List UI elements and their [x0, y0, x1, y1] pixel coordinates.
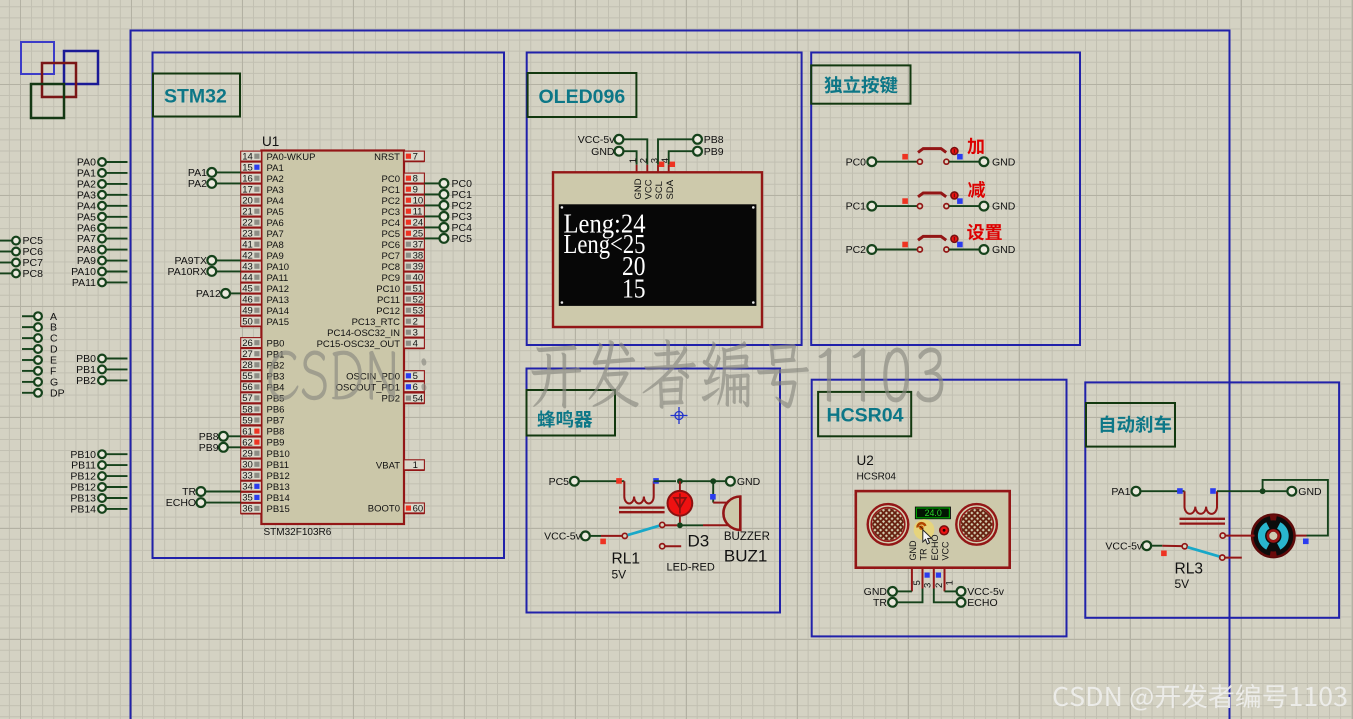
U1 pin 39 (PC8) [382, 261, 425, 273]
decorative rect blue [21, 42, 54, 74]
svg-text:PA6: PA6 [267, 218, 284, 229]
OLED pin 4 stub [660, 158, 675, 173]
decorative rect dark green [31, 84, 64, 118]
wire button to GND [949, 249, 980, 251]
U1 pin 49 (PA14) [241, 305, 289, 317]
terminal PB11 (stack) [71, 460, 127, 472]
terminal PC5 (chip right) [424, 233, 472, 245]
svg-text:38: 38 [413, 251, 424, 262]
svg-text:VCC-5v: VCC-5v [544, 531, 582, 543]
svg-text:PC8: PC8 [23, 268, 44, 280]
svg-text:PB2: PB2 [76, 375, 96, 387]
U1 pin 36 (PB15) [241, 503, 290, 515]
U1 pin 5 (OSCIN_PD0) [346, 371, 424, 383]
svg-text:PA8: PA8 [267, 240, 284, 251]
motor right lead [1293, 535, 1306, 537]
wire PB8 to OLED pin3 [658, 139, 693, 165]
svg-text:3: 3 [923, 583, 934, 588]
svg-text:4: 4 [413, 339, 418, 350]
svg-text:9: 9 [413, 185, 418, 196]
svg-text:STM32: STM32 [164, 86, 227, 108]
svg-text:27: 27 [242, 349, 253, 360]
svg-text:23: 23 [242, 229, 253, 240]
svg-text:PC12: PC12 [376, 306, 400, 317]
U1 pin 6 (OSCOUT_PD1) [336, 382, 425, 394]
terminal PB12 (stack) [70, 471, 127, 483]
U1 pin 41 (PA8) [241, 239, 284, 251]
svg-text:PC10: PC10 [376, 284, 400, 295]
svg-text:PB14: PB14 [70, 504, 96, 516]
motor left lead [1220, 533, 1254, 538]
svg-text:VCC-5v: VCC-5v [578, 134, 616, 146]
label box 独立按键 [811, 65, 910, 103]
svg-text:PA11: PA11 [267, 273, 289, 284]
svg-text:D3: D3 [688, 532, 710, 551]
terminal G (segment stack) [22, 377, 58, 389]
LED D3 [668, 481, 693, 522]
wire coil to LED node [654, 480, 676, 482]
mouse cursor [923, 530, 932, 544]
svg-text:PC15-OSC32_OUT: PC15-OSC32_OUT [317, 339, 401, 350]
U2 distance display 24.0 [915, 507, 951, 520]
svg-text:PA4: PA4 [267, 196, 284, 207]
svg-text:PA5: PA5 [267, 207, 284, 218]
OLED screen text [564, 209, 646, 304]
svg-text:35: 35 [242, 493, 253, 504]
U1 pin 16 (PA2) [241, 173, 284, 185]
U1 pin 38 (PC7) [382, 250, 425, 262]
svg-text:33: 33 [242, 471, 253, 482]
svg-text:PA13: PA13 [267, 295, 290, 306]
terminal PB9 (OLED) [693, 146, 724, 158]
U2 pin names [908, 534, 951, 560]
U1 pin 28 (PB2) [241, 360, 285, 372]
U1 pin 55 (PB3) [241, 371, 285, 383]
svg-text:10: 10 [413, 196, 424, 207]
terminal PC4 (chip right) [424, 222, 472, 234]
U1 pin 52 (PC11) [377, 294, 424, 306]
U1 pin 45 (PA12) [241, 283, 289, 295]
terminal PB12 (stack) [70, 482, 127, 494]
svg-text:2: 2 [413, 317, 418, 328]
svg-text:LED-RED: LED-RED [667, 562, 715, 574]
svg-text:PB10: PB10 [267, 449, 290, 460]
svg-text:14: 14 [242, 152, 253, 163]
svg-text:PB8: PB8 [704, 134, 724, 146]
svg-text:52: 52 [413, 295, 424, 306]
STM32 section frame [153, 53, 505, 559]
wire PC5 to relay coil [579, 478, 625, 484]
svg-text:PA2: PA2 [188, 178, 207, 190]
terminal PC5 (far left) [0, 235, 43, 247]
svg-text:PB8: PB8 [267, 427, 285, 438]
svg-text:53: 53 [413, 306, 424, 317]
svg-text:40: 40 [413, 273, 424, 284]
svg-text:PC0: PC0 [382, 174, 400, 185]
svg-text:1: 1 [413, 460, 418, 471]
U1 pin 10 (PC2) [382, 195, 425, 207]
svg-text:TR: TR [919, 548, 929, 560]
svg-text:VCC: VCC [644, 179, 655, 199]
svg-text:4: 4 [660, 158, 671, 163]
decorative rect dark red [42, 63, 76, 97]
terminal PA11 (stack) [72, 277, 128, 289]
U2 labels [857, 453, 897, 483]
svg-text:PA7: PA7 [267, 229, 284, 240]
terminal PC1 [846, 201, 877, 213]
OLED pin 3 stub [649, 158, 664, 173]
OLED section frame [527, 53, 802, 346]
U1 pin 57 (PB5) [241, 393, 285, 405]
terminal PA8 (stack) [77, 244, 128, 256]
U1 pin 58 (PB6) [241, 404, 285, 416]
svg-text:PA3: PA3 [267, 185, 284, 196]
U1 pin 25 (PC5) [382, 228, 425, 240]
terminal GND (PC2 row) [980, 244, 1016, 256]
wire PA1 to relay coil [1140, 488, 1184, 494]
svg-text:NRST: NRST [374, 152, 400, 163]
svg-text:PA10: PA10 [267, 262, 290, 273]
red label 设置 [967, 224, 1002, 241]
svg-text:GND: GND [992, 244, 1016, 256]
svg-text:PB7: PB7 [267, 416, 285, 427]
U1 pin 27 (PB1) [241, 349, 285, 361]
U1 pin 3 (PC14-OSC32_IN) [327, 327, 424, 339]
terminal PA9TX [175, 255, 241, 267]
svg-text:PC2: PC2 [382, 196, 400, 207]
svg-text:28: 28 [242, 360, 253, 371]
terminal F (segment stack) [22, 366, 56, 378]
terminal B (segment stack) [22, 322, 57, 334]
U1 pin 2 (PC13_RTC) [352, 316, 425, 328]
label box 蜂鸣器 [527, 390, 616, 436]
terminal PB0 (stack) [76, 353, 127, 365]
corner watermark [1054, 684, 1347, 711]
brake section frame [1085, 382, 1339, 617]
svg-text:SCL: SCL [654, 181, 665, 199]
svg-text:PB6: PB6 [267, 405, 285, 416]
svg-text:PB9: PB9 [267, 438, 285, 449]
U1 pin 23 (PA7) [241, 228, 284, 240]
relay RL1 switch [544, 522, 681, 581]
terminal TR (HCSR04) [873, 589, 923, 609]
U1 pin 34 (PB13) [241, 481, 290, 493]
terminal ECHO [166, 497, 241, 509]
svg-text:55: 55 [242, 371, 253, 382]
wire LED node to GND node [682, 480, 727, 482]
wire LED bottom to buzzer [682, 524, 703, 526]
svg-text:GND: GND [633, 178, 644, 199]
U1 pin 59 (PB7) [241, 415, 285, 427]
U1 pin 33 (PB12) [241, 470, 290, 482]
OLED pin 2 stub [639, 158, 650, 173]
svg-text:39: 39 [413, 262, 424, 273]
terminal PC2 [846, 244, 877, 256]
terminal PA1 [188, 167, 241, 179]
U1 pin 40 (PC9) [382, 272, 425, 284]
terminal PB8 [199, 431, 241, 443]
svg-text:11: 11 [413, 207, 423, 218]
svg-text:24: 24 [413, 218, 424, 229]
svg-text:54: 54 [413, 393, 424, 404]
OLED display module OLED1 [553, 172, 762, 327]
terminal PB13 (stack) [70, 493, 127, 505]
svg-text:PA15: PA15 [267, 317, 290, 328]
svg-text:34: 34 [242, 482, 253, 493]
U1 pin 20 (PA4) [241, 195, 284, 207]
OLED pin 1 stub [628, 158, 639, 173]
terminal PC2 (chip right) [424, 200, 472, 212]
U1 pin 43 (PA10) [241, 261, 289, 273]
terminal C (segment stack) [22, 333, 58, 345]
svg-text:3: 3 [413, 328, 418, 339]
terminal PA4 (stack) [77, 200, 128, 212]
svg-text:50: 50 [242, 317, 253, 328]
svg-text:1: 1 [945, 580, 956, 585]
wire button to GND [949, 205, 980, 207]
svg-text:BUZZER: BUZZER [724, 531, 770, 543]
wire PB9 to OLED pin4 [669, 151, 694, 165]
svg-text:PC13_RTC: PC13_RTC [352, 317, 401, 328]
svg-text:62: 62 [242, 437, 253, 448]
relay RL3 switch [1105, 540, 1241, 591]
buttons section frame [811, 53, 1080, 346]
U1 pin 30 (PB11) [241, 459, 289, 471]
svg-text:PB9: PB9 [199, 442, 219, 454]
U1 pin 26 (PB0) [241, 338, 285, 350]
terminal PA9 (stack) [77, 255, 128, 267]
U1 pin 35 (PB14) [241, 492, 290, 504]
motor [1252, 515, 1294, 557]
U1 pin 60 (BOOT0) [368, 503, 425, 515]
HCSR04 section frame [812, 380, 1067, 637]
center watermark [269, 339, 944, 409]
svg-text:TR: TR [873, 597, 887, 609]
svg-text:PA0-WKUP: PA0-WKUP [267, 152, 316, 163]
U2 potentiometer [914, 519, 935, 540]
button PC0 [902, 148, 962, 165]
svg-text:RL1: RL1 [612, 551, 640, 568]
svg-text:3: 3 [649, 158, 660, 163]
svg-text:HCSR04: HCSR04 [827, 405, 904, 427]
svg-text:PC1: PC1 [846, 201, 867, 213]
svg-text:30: 30 [242, 460, 253, 471]
red label 减 [968, 181, 985, 198]
svg-text:1: 1 [628, 158, 639, 163]
svg-text:56: 56 [242, 382, 253, 393]
terminal PA1 (stack) [77, 168, 128, 180]
terminal GND (HCSR04) [864, 586, 912, 598]
svg-text:PC7: PC7 [382, 251, 400, 262]
svg-text:PB14: PB14 [267, 493, 290, 504]
terminal PA12 [196, 288, 241, 300]
terminal GND (PC1 row) [980, 201, 1016, 213]
U1 pin 62 (PB9) [241, 437, 285, 449]
svg-text:PC3: PC3 [382, 207, 400, 218]
svg-text:5: 5 [912, 580, 923, 585]
svg-text:2: 2 [639, 158, 650, 163]
svg-text:8: 8 [413, 174, 418, 185]
svg-text:15: 15 [242, 163, 253, 174]
svg-text:6: 6 [413, 382, 418, 393]
terminal PA0 (stack) [77, 157, 128, 169]
outer border frame [131, 31, 1230, 719]
svg-text:57: 57 [242, 393, 253, 404]
U1 pin 9 (PC1) [382, 184, 425, 196]
buzzer BUZ1 [703, 481, 770, 565]
U1 pin 7 (NRST) [374, 151, 424, 163]
terminal PA7 (stack) [77, 233, 128, 245]
svg-text:PA1: PA1 [267, 163, 284, 174]
U1 pin 37 (PC6) [382, 239, 425, 251]
terminal DP (segment stack) [22, 387, 65, 399]
svg-text:20: 20 [242, 196, 253, 207]
U1 pin 50 (PA15) [241, 316, 289, 328]
svg-text:PA2: PA2 [267, 174, 284, 185]
svg-text:5: 5 [413, 371, 418, 382]
terminal GND (OLED) [591, 146, 623, 158]
terminal PB14 (stack) [70, 504, 127, 516]
svg-text:PC14-OSC32_IN: PC14-OSC32_IN [327, 328, 400, 339]
svg-text:GND: GND [992, 156, 1016, 168]
svg-text:U1: U1 [262, 134, 279, 149]
terminal PC5 [549, 476, 579, 488]
svg-text:41: 41 [242, 240, 253, 251]
svg-text:GND: GND [591, 146, 615, 158]
svg-text:PB9: PB9 [704, 146, 724, 158]
terminal PC0 [846, 156, 877, 168]
wire GND to OLED pin1 [623, 151, 637, 165]
svg-text:VCC: VCC [941, 541, 951, 561]
terminal PB1 (stack) [76, 364, 127, 376]
U1 pin 14 (PA0-WKUP) [241, 151, 316, 163]
terminal PA2 (stack) [77, 179, 128, 191]
terminal PC1 (chip right) [424, 189, 472, 201]
terminal PA3 (stack) [77, 189, 128, 201]
svg-text:SDA: SDA [665, 179, 676, 199]
svg-text:45: 45 [242, 284, 253, 295]
label box STM32 [153, 74, 240, 117]
label box HCSR04 [818, 392, 911, 436]
label box OLED096 [528, 73, 637, 117]
U1 pin 56 (PB4) [241, 382, 285, 394]
node at buzzer branch [710, 478, 716, 484]
svg-text:PB15: PB15 [267, 504, 290, 515]
svg-text:GND: GND [1298, 486, 1322, 498]
U1 pin 51 (PC10) [376, 283, 424, 295]
svg-text:STM32F103R6: STM32F103R6 [264, 527, 332, 538]
U2 pin 2 stub [934, 568, 945, 589]
terminal GND (PC0 row) [980, 156, 1016, 168]
svg-text:5V: 5V [612, 568, 627, 582]
svg-text:5V: 5V [1175, 577, 1190, 591]
svg-text:24.0: 24.0 [925, 508, 942, 518]
wire coil to GND node [1217, 490, 1288, 492]
terminal PB10 (stack) [70, 449, 127, 461]
svg-text:29: 29 [242, 449, 253, 460]
svg-text:PB0: PB0 [267, 338, 285, 349]
svg-text:U2: U2 [857, 453, 874, 468]
terminal PA5 (stack) [77, 211, 128, 223]
svg-text:26: 26 [242, 338, 253, 349]
svg-text:25: 25 [413, 229, 424, 240]
node (brake) [1260, 488, 1266, 494]
svg-text:61: 61 [242, 426, 253, 437]
svg-text:VBAT: VBAT [376, 461, 400, 472]
svg-text:59: 59 [242, 415, 253, 426]
terminal PC8 (far left) [0, 268, 43, 280]
svg-text:PC4: PC4 [382, 218, 400, 229]
terminal PA10 (stack) [71, 266, 127, 278]
svg-text:PB13: PB13 [267, 482, 290, 493]
terminal PA1 (brake) [1111, 486, 1140, 498]
red label 加 [967, 138, 983, 155]
svg-text:PC9: PC9 [382, 273, 400, 284]
svg-text:ECHO: ECHO [166, 497, 196, 509]
decorative rect navy [64, 51, 98, 84]
wire node to motor [1263, 480, 1328, 544]
U2 right transducer [956, 504, 997, 545]
svg-text:PC5: PC5 [452, 233, 473, 245]
U1 pin 11 (PC3) [382, 206, 425, 218]
U1 pin 21 (PA5) [241, 206, 284, 218]
terminal PB2 (stack) [76, 375, 127, 387]
svg-text:PA14: PA14 [267, 306, 290, 317]
U1 pin 42 (PA9) [241, 250, 284, 262]
terminal A (segment stack) [22, 311, 57, 323]
svg-text:17: 17 [242, 185, 253, 196]
terminal PC6 (far left) [0, 246, 43, 258]
svg-text:44: 44 [242, 273, 253, 284]
svg-text:PC5: PC5 [382, 229, 400, 240]
terminal PC0 (chip right) [424, 178, 472, 190]
terminal PC3 (chip right) [424, 211, 472, 223]
wire PC2 to button [876, 249, 918, 251]
terminal D (segment stack) [22, 344, 58, 356]
terminal TR [182, 486, 241, 498]
terminal VCC-5v (OLED) [578, 134, 624, 146]
svg-text:PA1: PA1 [1111, 486, 1130, 498]
U2 left transducer [868, 504, 909, 545]
terminal PB8 (OLED) [693, 134, 724, 146]
terminal VCC-5v (HCSR04) [945, 586, 1005, 598]
svg-text:RL3: RL3 [1175, 561, 1203, 578]
U2 pin 1 stub [945, 568, 956, 592]
svg-text:PA9: PA9 [267, 251, 284, 262]
wire button to GND [949, 161, 980, 163]
svg-text:PC2: PC2 [846, 244, 867, 256]
svg-text:PC6: PC6 [382, 240, 400, 251]
svg-text:2: 2 [934, 583, 945, 588]
svg-text:PA10RX: PA10RX [168, 266, 208, 278]
ultrasonic module U2 body [856, 491, 1010, 568]
terminal PA2 [188, 178, 241, 190]
wire PC1 to button [876, 205, 918, 207]
U2 red button [940, 526, 949, 535]
terminal ECHO (HCSR04) [934, 589, 998, 609]
terminal GND (buzzer) [726, 476, 761, 488]
D3 labels [667, 532, 715, 574]
U1 pin 53 (PC12) [376, 305, 424, 317]
svg-text:GND: GND [737, 476, 761, 488]
svg-text:PC0: PC0 [846, 156, 867, 168]
U1 pin 44 (PA11) [241, 272, 289, 284]
svg-text:58: 58 [242, 404, 253, 415]
svg-text:GND: GND [992, 201, 1016, 213]
U2 pin 3 stub [923, 568, 934, 589]
svg-text:DP: DP [50, 387, 65, 399]
U1 pin 54 (PD2) [382, 393, 425, 405]
